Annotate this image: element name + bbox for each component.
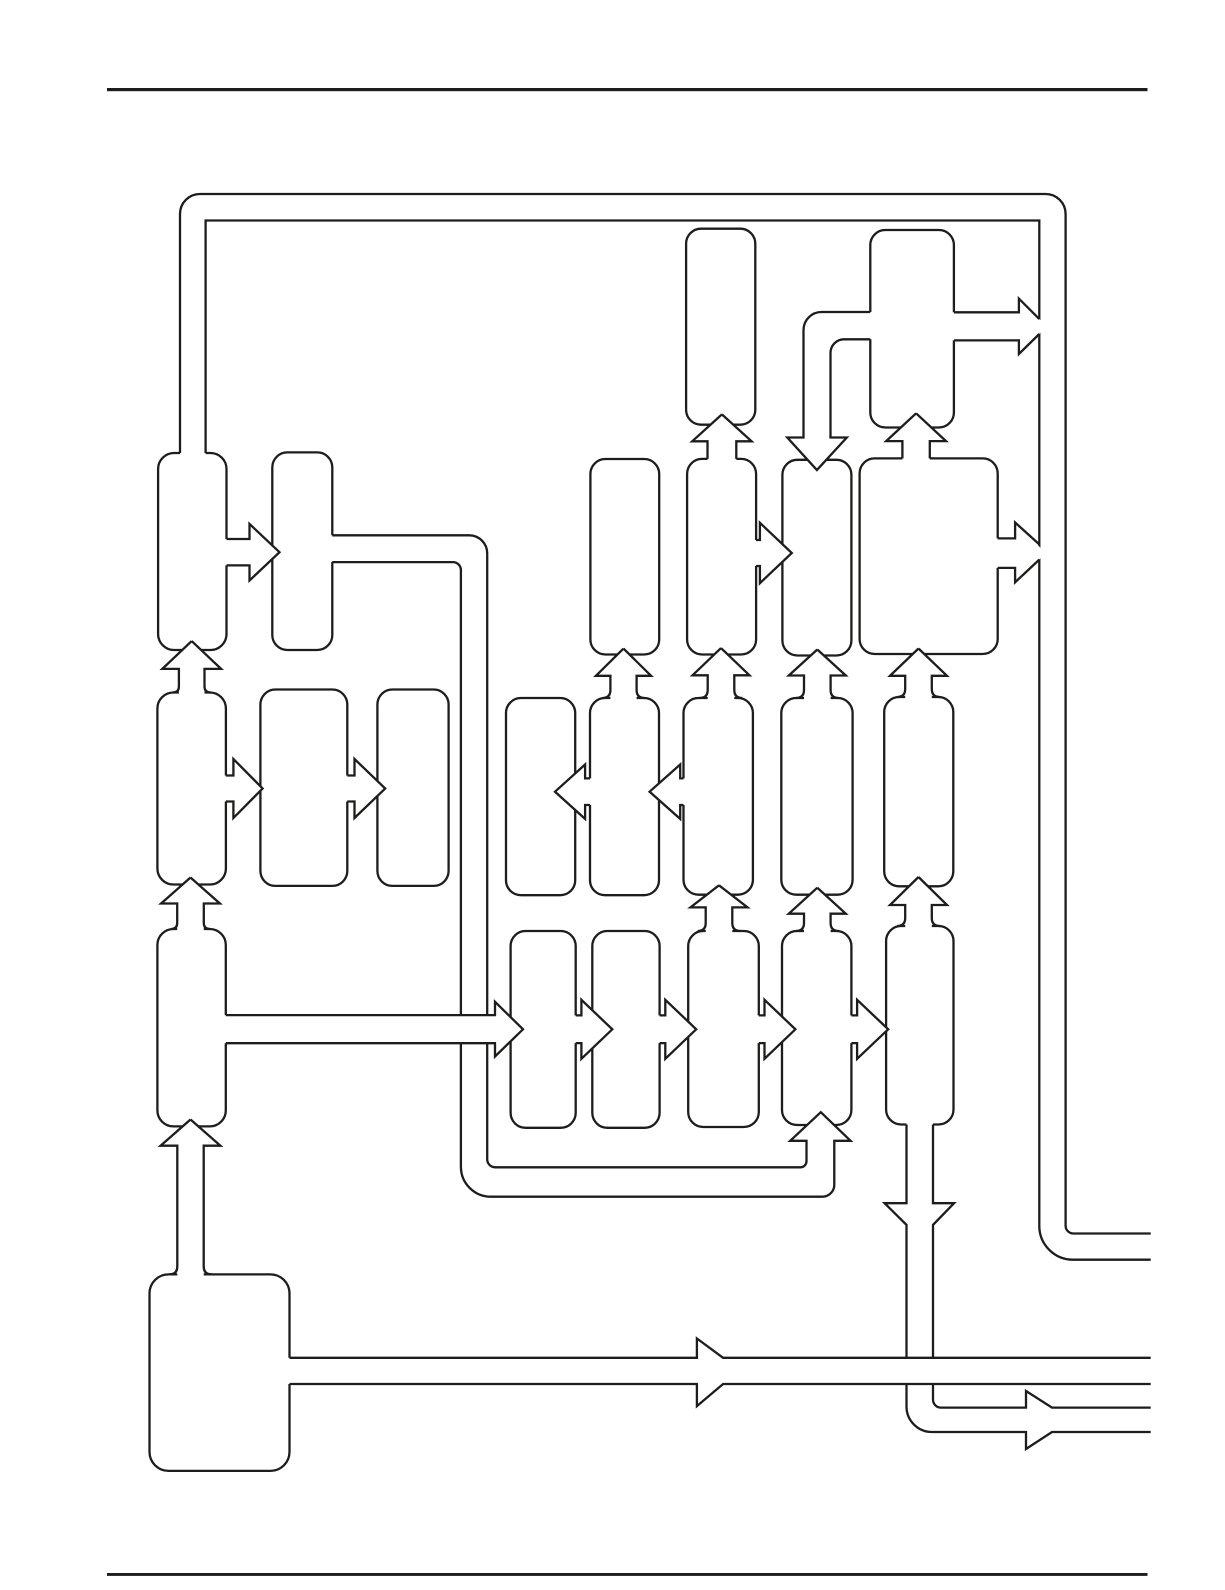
box C2 (row2 second) (272, 452, 332, 650)
box T1 (top middle) (686, 229, 755, 425)
arrow C3a to C3b (343, 759, 385, 818)
arrow L3 to C3a (222, 759, 263, 818)
arrow R4c to R4d (755, 1000, 796, 1059)
wire pipe from C2 down and right with up-arrow into R4d (328, 535, 850, 1196)
box L4 (row4 left) (157, 929, 225, 1126)
wire pipe from T2 right merging into main pipe (arrow) (950, 299, 1042, 354)
arrow L3 to L2 (162, 641, 221, 696)
arrow R3f to R2c (789, 650, 846, 703)
wire pipe from B0 right to margin with inline arrow (286, 1339, 1151, 1407)
box R2a (row2) (590, 459, 659, 655)
box C3b (row3) (377, 690, 448, 886)
box C3a (row3) (260, 690, 347, 886)
arrow R3e to R3d (650, 765, 688, 819)
box R4c (row4) (688, 931, 759, 1127)
box B0 (bottom left) (150, 1274, 290, 1471)
box R4b (row4) (592, 931, 659, 1128)
wire pipe from R4e bottom down with inline down-arrow, elbow right to margin (885, 1121, 1151, 1450)
box T2 (top right) (870, 230, 954, 428)
arrow L2 to C2 (223, 524, 280, 581)
arrow R4b to R4c (656, 1000, 697, 1059)
wire long pipe L4 to R4a with arrow (222, 1002, 523, 1057)
box R2b (row2) (687, 459, 756, 655)
top rule (107, 88, 1148, 91)
box R2d (row2 large) (860, 458, 998, 654)
box R2c (row2) (782, 460, 851, 656)
box R4a (row4) (511, 931, 576, 1128)
arrow B0 to L4 (161, 1120, 221, 1279)
box R4d (row4) (782, 931, 851, 1125)
box L3 (row3 left) (157, 693, 226, 885)
arrow R2d to T2 (886, 413, 946, 462)
arrow R4d to R3f (789, 888, 846, 935)
box R3g (row3) (884, 697, 953, 886)
arrow R3g to R2d (890, 649, 947, 702)
wire pipe from T2 left with down-arrow D1 into R2c (787, 312, 874, 470)
arrow R4a to R4b (572, 1000, 613, 1059)
arrow R4e to R3g (890, 877, 947, 930)
arrow R2b to T1 (692, 414, 751, 463)
wire pipe from R2d right merging into main pipe (arrow) (994, 523, 1042, 583)
box R4e (row4) (886, 926, 953, 1125)
bottom rule (107, 1573, 1148, 1576)
arrow R3d to R2a (596, 649, 651, 702)
arrow R4d to R4e (847, 1000, 888, 1059)
arrow R2b to R2c (752, 523, 792, 583)
box R3d (row3) (590, 698, 659, 895)
arrow R3e to R2b (693, 648, 750, 702)
arrow R4c to R3e (691, 885, 748, 935)
box R3e (row3) (684, 698, 753, 895)
wire main loop pipe (top-left corner, right side, bottom-right exit) (180, 194, 1151, 1260)
box R3c (row3) (506, 698, 575, 895)
arrow R3d to R3c (555, 765, 594, 819)
box L2 (row2 left) (158, 453, 226, 650)
arrow L4 to L3 (161, 878, 220, 934)
box R3f (row3) (781, 698, 852, 895)
